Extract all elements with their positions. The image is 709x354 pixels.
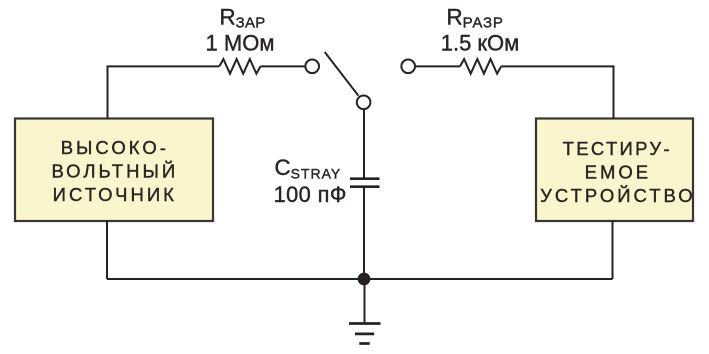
svg-text:RРАЗР: RРАЗР xyxy=(447,4,504,31)
resistor R2 (R_РАЗР) zigzag xyxy=(460,59,501,74)
wire: right terminal to resistor R2 xyxy=(416,65,460,67)
switch S1 blade (open) xyxy=(325,52,359,96)
wire: HV source top lead and top-left horizontal run xyxy=(108,66,220,118)
wire: capacitor bottom plate down to ground node xyxy=(363,187,365,279)
wire: resistor R1 to switch left terminal xyxy=(261,65,305,67)
svg-text:ИСТОЧНИК: ИСТОЧНИК xyxy=(53,184,177,205)
wire: switch pole down to capacitor top plate xyxy=(363,110,365,179)
resistor R1 (R_ЗАР) zigzag xyxy=(219,59,260,74)
wire: HV source bottom lead xyxy=(106,221,108,280)
capacitor C1 (C_STRAY) bottom plate xyxy=(350,185,380,188)
switch S1 pole terminal xyxy=(357,96,371,110)
svg-text:CSTRAY: CSTRAY xyxy=(275,155,342,181)
node: ground junction dot xyxy=(358,273,371,286)
capacitor C1 (C_STRAY) top plate xyxy=(350,177,380,180)
ground symbol xyxy=(349,324,381,344)
block: device under test (ТЕСТИРУЕМОЕ УСТРОЙСТВО) xyxy=(536,119,696,222)
switch S1 right throw terminal xyxy=(401,60,415,74)
svg-text:ЕМОЕ: ЕМОЕ xyxy=(585,162,651,183)
svg-text:ВЫСОКО-: ВЫСОКО- xyxy=(61,137,169,158)
svg-text:ВОЛЬТНЫЙ: ВОЛЬТНЫЙ xyxy=(51,161,178,182)
wire: ground stem xyxy=(364,279,366,324)
svg-text:RЗАР: RЗАР xyxy=(220,4,266,31)
wire: bottom bus xyxy=(107,278,613,280)
switch S1 left throw terminal xyxy=(305,60,319,74)
block: high-voltage source (ВЫСОКОВОЛЬТНЫЙ ИСТОЧНИК) xyxy=(15,119,213,222)
svg-text:100 пФ: 100 пФ xyxy=(274,182,347,207)
svg-text:1 МОм: 1 МОм xyxy=(206,31,275,56)
svg-text:1.5 кОм: 1.5 кОм xyxy=(441,31,520,56)
svg-text:УСТРОЙСТВО: УСТРОЙСТВО xyxy=(540,185,696,206)
wire: DUT bottom lead xyxy=(612,221,614,280)
wire: resistor R2 to DUT top lead xyxy=(501,66,613,118)
svg-text:ТЕСТИРУ-: ТЕСТИРУ- xyxy=(563,138,672,159)
